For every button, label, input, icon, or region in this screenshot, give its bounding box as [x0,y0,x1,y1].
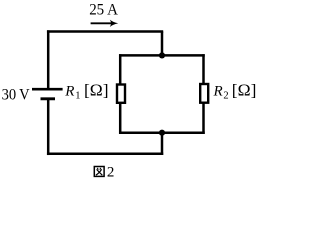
wire: R2 bottom lead [202,103,205,134]
svg-text:R: R [213,83,223,99]
wire: bottom horizontal back to battery side [47,153,163,156]
svg-text:2: 2 [223,91,228,102]
wire: left vertical, battery positive up to top-left corner [47,30,50,90]
resistor R2 (box symbol) [200,84,208,103]
svg-text:25 A: 25 A [89,2,119,19]
svg-text:2: 2 [107,165,115,181]
node: bottom junction dot [159,130,165,136]
resistor R1 (box symbol) [117,85,125,103]
svg-text:[Ω]: [Ω] [232,81,257,100]
wire: top horizontal from left corner to centre drop [47,30,163,33]
svg-text:R: R [64,83,74,99]
wire: parallel-block bottom rail [119,131,205,134]
current direction arrow (points right) [91,20,119,27]
battery B1: long (positive) plate [32,88,63,91]
wire: R2 top lead [202,54,205,83]
label: resistor R2 value "R2 [ohm]" [213,81,257,102]
wire: R1 top lead [119,54,122,84]
label: resistor R1 value "R1 [ohm]" [64,81,108,102]
wire: parallel-block top rail [119,54,205,57]
wire: R1 bottom lead [119,104,122,134]
wire: centre drop into top node [161,32,164,57]
battery B1: short (negative) plate [41,97,56,100]
caption: figure number (zu 2), hand-drawn CJK glyph + digit [94,167,104,177]
wire: centre drop from bottom node [161,132,164,156]
node: top junction dot [159,52,165,58]
svg-text:1: 1 [75,91,80,102]
wire: left vertical, bottom-left corner up to battery negative [47,99,50,155]
svg-text:[Ω]: [Ω] [84,81,109,100]
svg-text:30 V: 30 V [2,86,31,103]
